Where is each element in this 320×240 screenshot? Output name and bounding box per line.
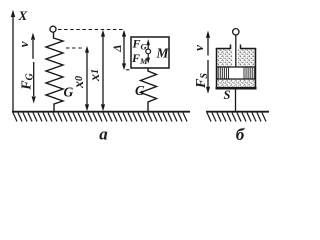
ground (b): hatching: [207, 113, 266, 122]
velocity arrow v (b): [207, 37, 209, 56]
svg-text:а: а: [99, 125, 108, 144]
ground (a): hatching: [13, 113, 187, 122]
dimension x0: [86, 50, 88, 108]
axis X line: [12, 16, 14, 112]
spring G (a, free): top ring: [50, 26, 56, 32]
damper S: rod clearance: [232, 49, 238, 66]
dimension Delta: [123, 34, 125, 66]
damper S: cylinder walls: [216, 45, 257, 89]
svg-text:б: б: [236, 125, 246, 144]
spring G (a, free): body: [46, 33, 63, 113]
svg-text:Δ: Δ: [112, 45, 124, 53]
dashed line: free end level: [58, 29, 123, 31]
arrow F_G up (in box): [147, 45, 149, 49]
mass M box: [131, 37, 169, 68]
svg-text:FS: FS: [194, 73, 210, 89]
dashed line: box bottom level: [126, 69, 131, 71]
damper S: top ring: [233, 29, 239, 35]
svg-text:v: v: [16, 41, 31, 47]
damper S: piston plate lines: [217, 66, 255, 68]
dashed line: x0 level: [66, 47, 84, 49]
spring G (a, loaded): body: [141, 68, 157, 112]
force arrow F_S (b): [207, 60, 209, 87]
velocity arrow v (a): [32, 40, 34, 59]
ground (a): surface line: [12, 111, 190, 113]
damper S: piston hatching left: [218, 68, 228, 79]
pivot circle (in box): [146, 49, 151, 54]
svg-text:S: S: [224, 88, 231, 102]
damper S: fluid stipple: [217, 49, 255, 87]
axis X arrowhead: [11, 10, 15, 17]
svg-text:x1: x1: [88, 69, 103, 82]
arrow F_M down (in box): [147, 54, 149, 58]
ground (b): surface line: [206, 111, 269, 113]
svg-text:M: M: [156, 45, 170, 60]
damper S: piston rod: [235, 35, 237, 67]
damper S: bottom stem: [235, 88, 237, 112]
svg-text:X: X: [18, 8, 28, 23]
damper S: piston hatching right: [244, 68, 254, 79]
force arrow F_G (a, left): [33, 62, 35, 96]
svg-text:G: G: [135, 83, 145, 98]
svg-text:x0: x0: [72, 76, 87, 89]
svg-text:FG: FG: [20, 72, 36, 90]
svg-text:v: v: [191, 45, 206, 51]
dimension x1: [102, 34, 104, 108]
